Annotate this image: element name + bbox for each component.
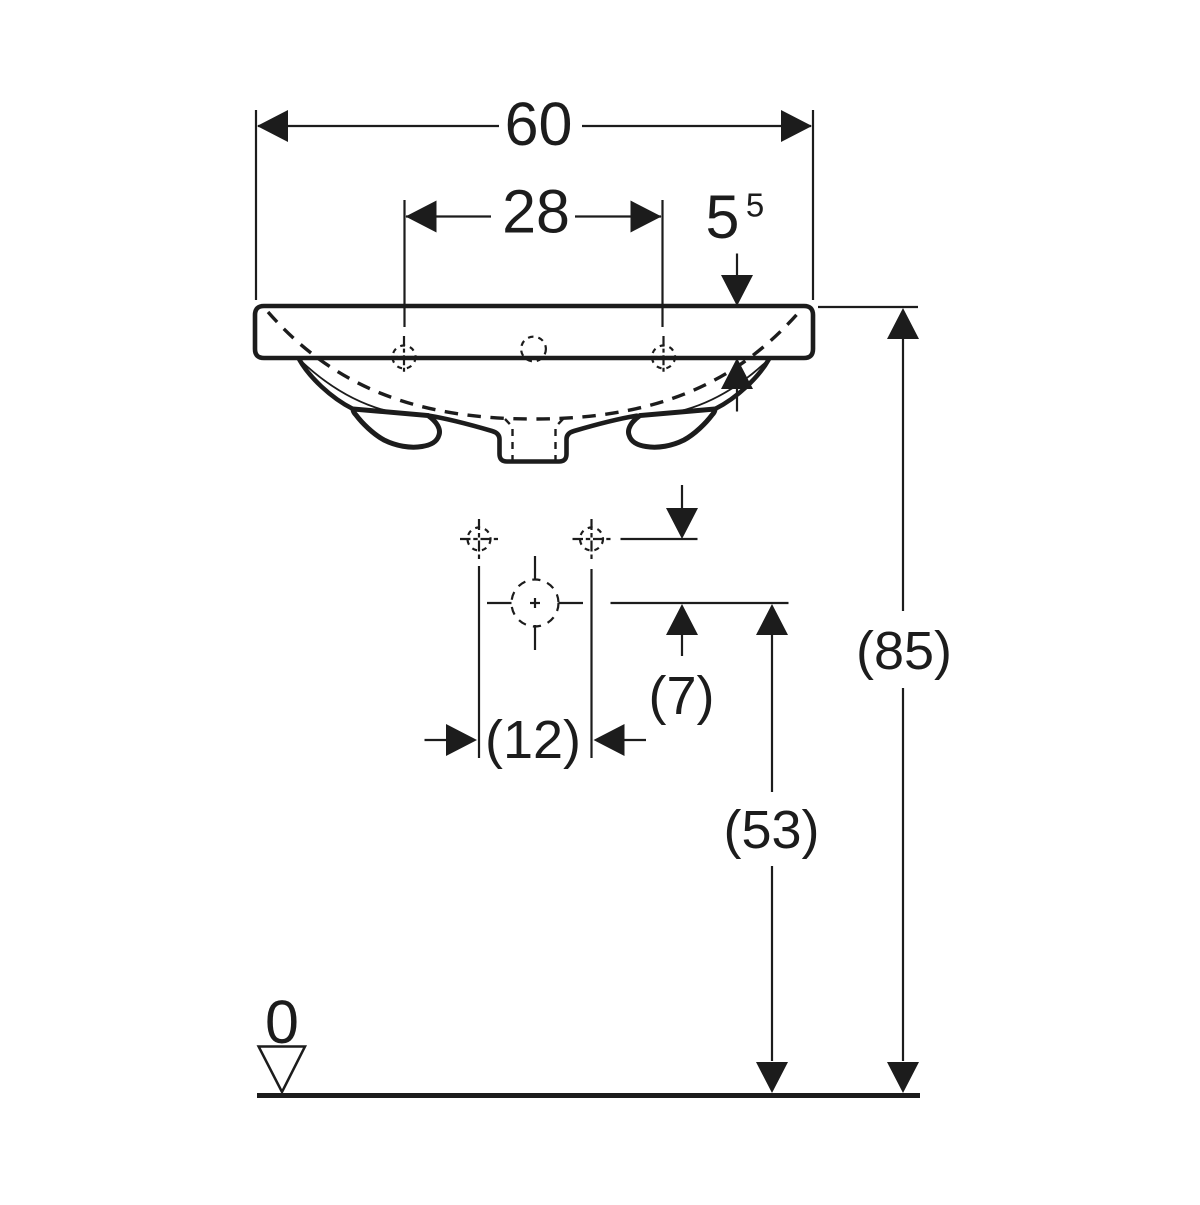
dim 5.5 top arrow stem: [736, 254, 738, 279]
overflow hole (dashed circle): [521, 337, 546, 362]
dim 7 top arrow stem: [681, 485, 683, 510]
svg-text:28: 28: [502, 178, 570, 246]
dim 28 arrow right: [631, 201, 662, 233]
svg-text:(12): (12): [485, 710, 581, 770]
dim 53 arrow top (up): [756, 604, 788, 635]
trap hidden walls (dashed verticals): [505, 419, 513, 460]
datum zero triangle: [259, 1047, 305, 1093]
dim 28 extension line right: [661, 200, 663, 327]
dim 5.5 top arrow (down): [721, 275, 753, 306]
dim 85 line upper segment: [902, 338, 904, 611]
bowl front rim thin curve left: [300, 360, 430, 416]
dim 60 arrow left: [257, 110, 288, 142]
svg-text:5: 5: [706, 183, 740, 251]
bowl hidden edge (dashed curve): [268, 312, 799, 419]
dim 85 line lower segment: [902, 688, 904, 1061]
dim 7: reference line at mounting holes level: [621, 538, 698, 540]
drain centre mark (dashed circle + centerlines): [487, 556, 583, 650]
dim 12 arrow left (points right): [446, 724, 477, 756]
dim 7/53: reference line at drain level: [611, 602, 789, 604]
dim 60 extension line right: [812, 110, 814, 300]
left wing (teardrop): [353, 409, 440, 447]
dim 28 arrow left: [406, 201, 437, 233]
dim 85 arrow top (up): [887, 308, 919, 339]
dim 60 line left segment: [258, 125, 499, 127]
dim 5.5 bottom arrow stem: [736, 388, 738, 412]
dim 12 right tail: [622, 739, 646, 741]
dim 85: reference line at slab top level: [818, 306, 918, 308]
outer underside curve left: [299, 359, 353, 409]
tap hole right (centerline cross + dashed circle): [651, 336, 677, 374]
dim 12 extension line right: [590, 569, 592, 758]
dim 60 arrow right: [781, 110, 812, 142]
basin slab (rounded rectangle body): [255, 306, 813, 358]
dim 12 arrow right (points left): [594, 724, 625, 756]
dim 53 line lower segment: [771, 866, 773, 1061]
svg-text:(7): (7): [649, 666, 715, 726]
mounting hole left cross: [460, 519, 498, 559]
dim 7 top arrow (down): [666, 508, 698, 539]
dim 7 bottom arrow (up): [666, 604, 698, 635]
ground baseline: [257, 1093, 920, 1098]
svg-text:60: 60: [505, 90, 573, 158]
dim 28 line right segment: [575, 215, 661, 217]
dim 53 arrow bottom (down): [756, 1062, 788, 1093]
dim 85 arrow bottom (down): [887, 1062, 919, 1093]
right wing (teardrop): [628, 409, 715, 447]
dim 28 line left segment: [406, 215, 491, 217]
dim 12 extension line left: [478, 566, 480, 758]
svg-text:5: 5: [746, 187, 764, 224]
dim 5.5 bottom arrow (up): [721, 358, 753, 389]
outer underside curve right: [715, 359, 769, 409]
svg-text:(85): (85): [856, 621, 952, 681]
bowl front rim thin curve right: [638, 360, 768, 416]
dim 53 line upper segment: [771, 634, 773, 792]
tap hole left (centerline cross + dashed circle): [391, 336, 417, 374]
dim 12 left tail: [425, 739, 450, 741]
dim 7 bottom arrow stem: [681, 634, 683, 656]
dim 60 line right segment: [582, 125, 811, 127]
svg-text:(53): (53): [723, 800, 819, 860]
shoulders and drain trap outline: [428, 416, 638, 462]
svg-text:0: 0: [265, 988, 299, 1056]
mounting hole right cross: [573, 519, 611, 559]
dim 60 extension line left: [255, 110, 257, 300]
dim 28 extension line left: [403, 200, 405, 327]
